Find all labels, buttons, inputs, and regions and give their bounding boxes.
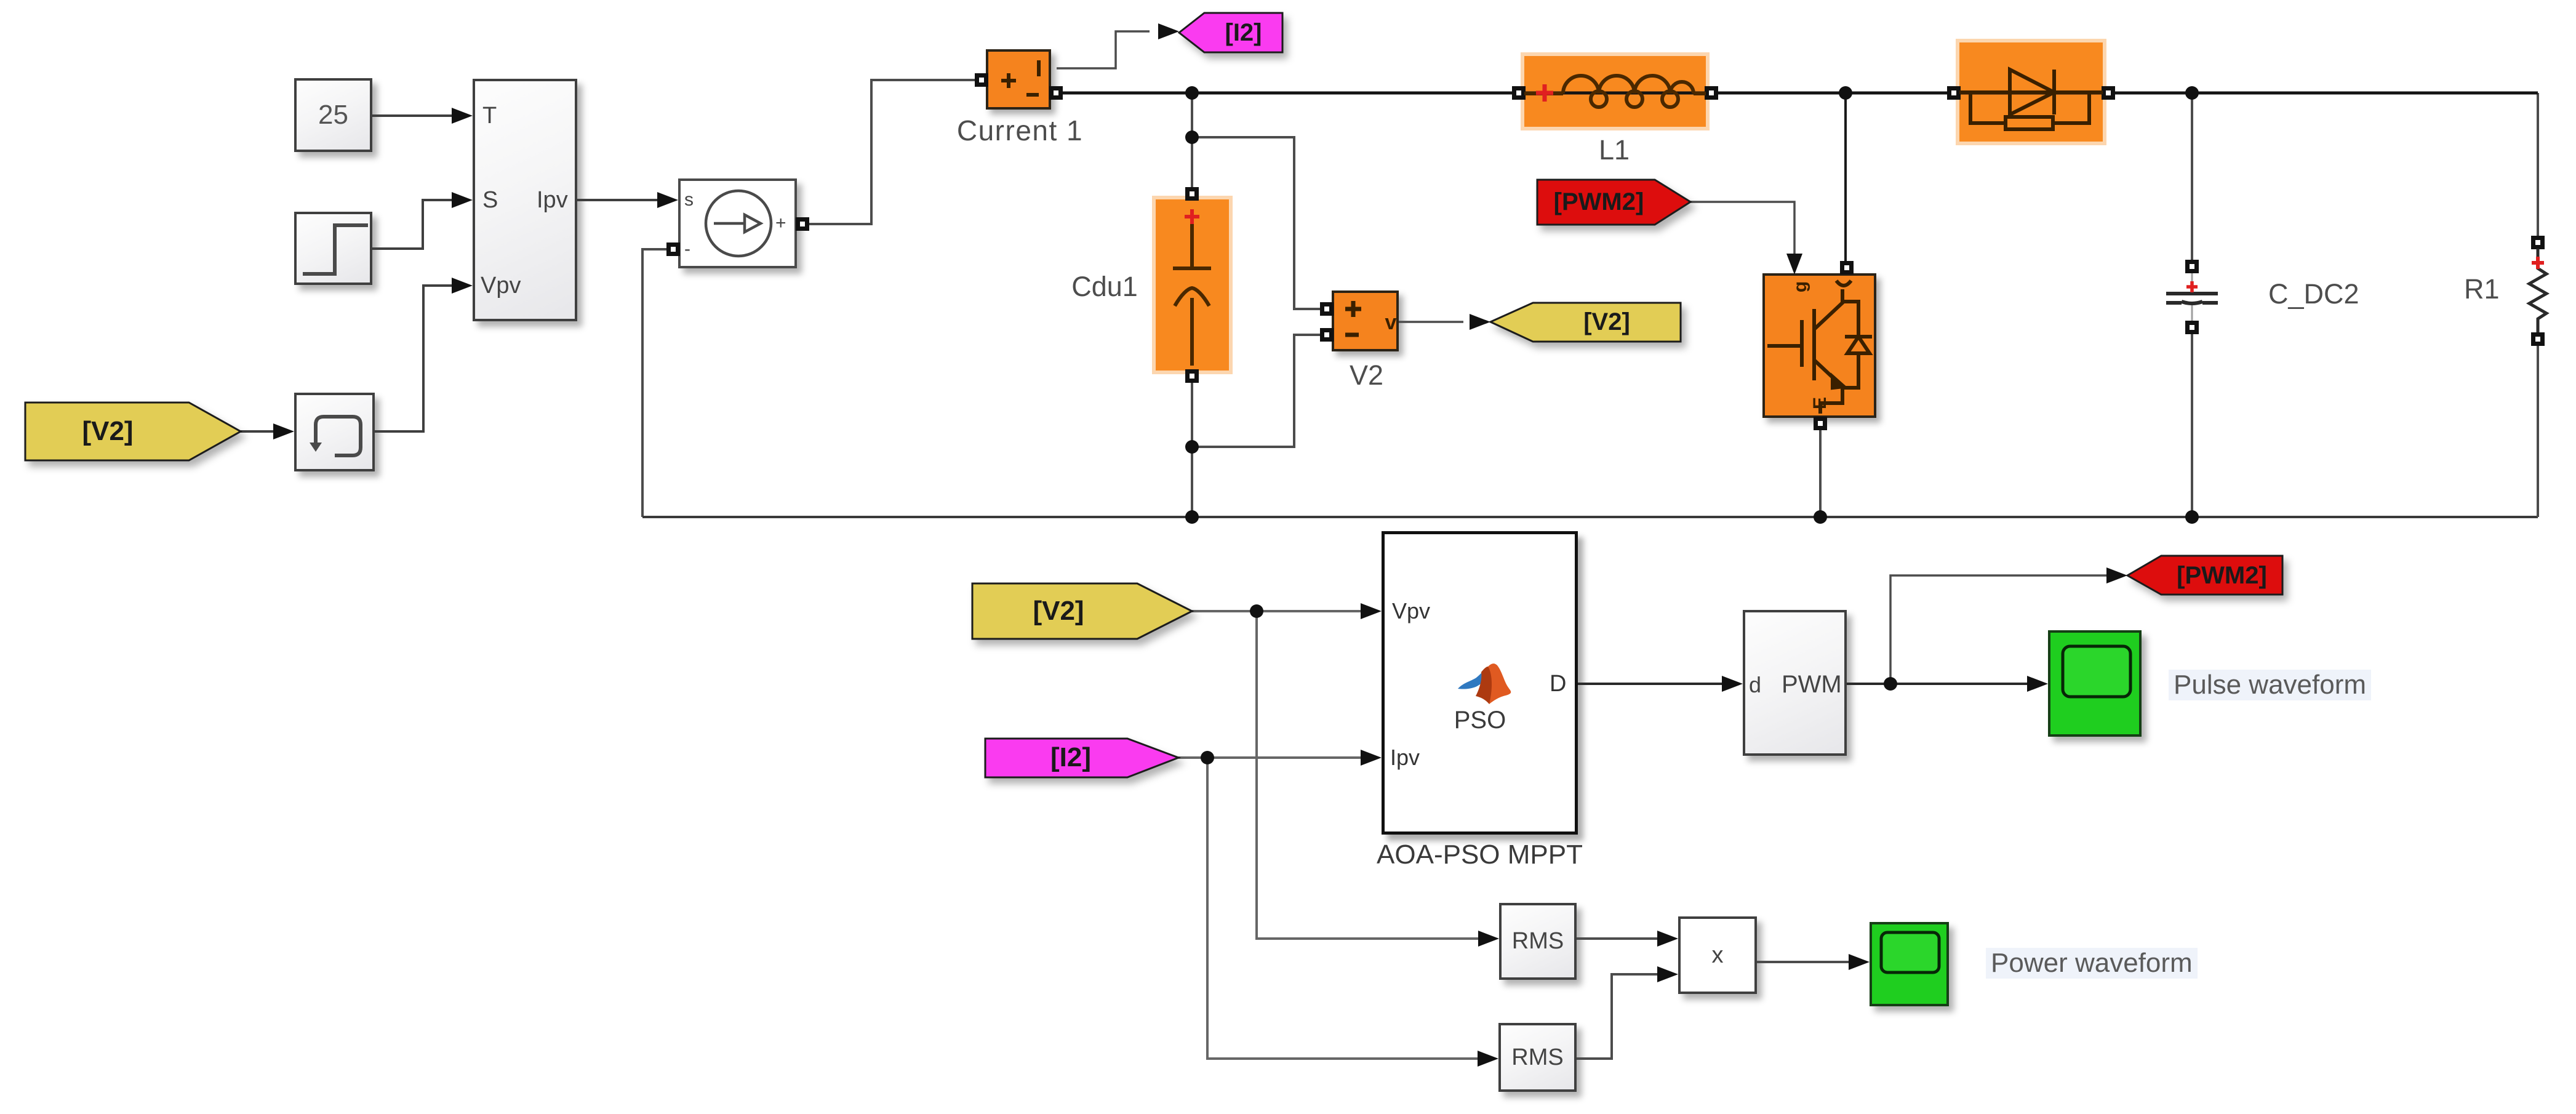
svg-text:E: E: [1810, 397, 1830, 409]
svg-text:g: g: [1790, 281, 1810, 292]
svg-text:v: v: [1385, 311, 1397, 334]
